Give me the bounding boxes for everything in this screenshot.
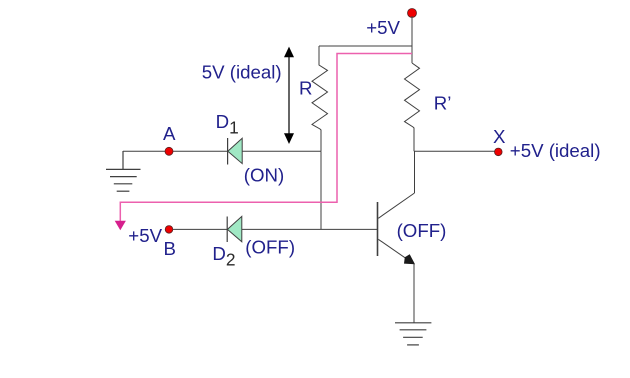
wire ground to diode D1 (node A on it) — [123, 150, 228, 152]
resistor R — [312, 46, 328, 151]
svg-text:D1: D1 — [216, 111, 239, 137]
svg-text:+5V: +5V — [366, 17, 400, 38]
diode D1 — [228, 138, 243, 165]
svg-text:D2: D2 — [212, 243, 235, 269]
node B dot — [165, 226, 173, 234]
wire D1 to junction J1 — [242, 150, 321, 152]
svg-text:R’: R’ — [434, 93, 452, 114]
node J1 (junction R / D1 / base branch) — [320, 151, 322, 229]
svg-text:A: A — [163, 123, 176, 144]
measure arrow (double-headed, 5V ideal across R) — [284, 47, 294, 144]
svg-text:(ON): (ON) — [244, 164, 284, 185]
diode D2 — [227, 216, 242, 242]
wire top rail — [319, 45, 412, 47]
svg-text:B: B — [164, 238, 176, 259]
wire collector to X — [414, 151, 416, 193]
wire X output — [414, 150, 495, 152]
current path highlight (pink wire) — [120, 54, 412, 223]
wire B to diode D2 — [173, 228, 228, 230]
+5V supply dot (top) — [408, 9, 417, 18]
wire emitter to ground — [413, 264, 415, 323]
current path arrowhead — [115, 221, 126, 231]
transistor Q1 — [378, 193, 416, 264]
svg-text:+5V (ideal): +5V (ideal) — [510, 140, 601, 161]
wire D2 to transistor base — [242, 228, 377, 230]
ground GND2 (bottom) — [395, 323, 431, 345]
svg-text:R: R — [299, 77, 312, 98]
resistor R' — [405, 63, 420, 151]
node X — [495, 148, 503, 156]
svg-text:5V (ideal): 5V (ideal) — [202, 62, 282, 83]
svg-text:(OFF): (OFF) — [245, 237, 295, 258]
svg-text:X: X — [493, 126, 506, 147]
svg-text:+5V: +5V — [128, 225, 162, 246]
ground GND1 (left) — [106, 151, 141, 191]
wire +5V vertical — [411, 16, 413, 63]
node A — [165, 147, 173, 155]
svg-text:(OFF): (OFF) — [397, 220, 447, 241]
